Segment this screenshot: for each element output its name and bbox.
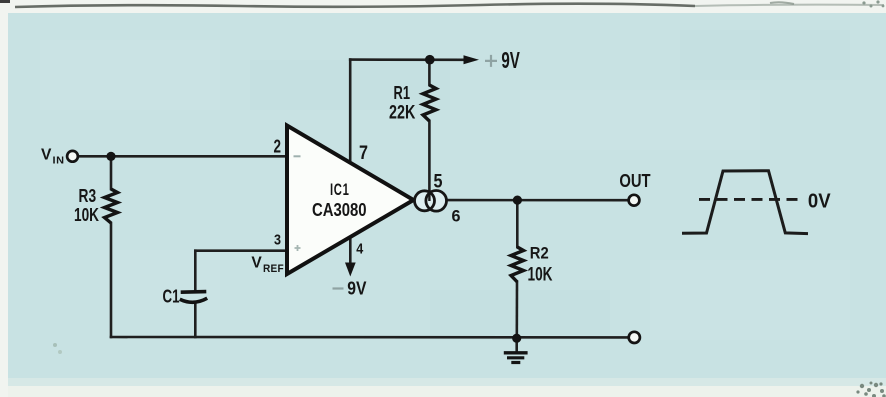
svg-text:V: V xyxy=(251,255,262,272)
wire R3 branch vertical xyxy=(110,156,113,189)
svg-text:IN: IN xyxy=(53,155,65,167)
wire output xyxy=(447,199,629,202)
svg-text:10K: 10K xyxy=(74,204,99,225)
junction VIN/R3 xyxy=(106,152,115,161)
wire input (VIN to pin 2) xyxy=(78,155,287,158)
wire R3 bottom to rail xyxy=(110,223,113,337)
svg-text:V: V xyxy=(41,147,52,164)
svg-text:REF: REF xyxy=(263,263,284,275)
svg-text:9V: 9V xyxy=(501,47,520,73)
svg-text:2: 2 xyxy=(274,136,282,156)
wire R2 top xyxy=(516,200,519,247)
opamp plus sign (pin 3) xyxy=(295,245,301,251)
junction ground xyxy=(512,334,521,343)
svg-text:9V: 9V xyxy=(347,279,366,299)
opamp minus sign (pin 2) xyxy=(294,155,301,157)
svg-text:R3: R3 xyxy=(79,185,97,206)
junction OUT/R2 xyxy=(513,196,522,205)
op-amp IC1 triangle xyxy=(287,126,414,275)
svg-text:CA3080: CA3080 xyxy=(312,199,367,220)
label -9V xyxy=(333,279,367,299)
svg-text:R2: R2 xyxy=(530,244,549,262)
OTA output circles xyxy=(415,190,447,211)
terminal OUT xyxy=(629,195,640,206)
wire R1 top xyxy=(428,60,431,85)
corner speckles xyxy=(0,0,10,3)
label VIN xyxy=(41,147,65,167)
wire C1 top branch xyxy=(194,251,197,291)
capacitor C1 xyxy=(180,292,207,303)
svg-text:C1: C1 xyxy=(163,287,180,307)
waveform trapezoid xyxy=(682,171,808,234)
svg-text:IC1: IC1 xyxy=(330,180,350,199)
svg-text:0V: 0V xyxy=(808,191,831,213)
label VREF xyxy=(251,255,284,276)
arrow pin 4 (-9V) xyxy=(345,263,356,277)
waveform 0V dashed line xyxy=(699,198,802,201)
svg-text:5: 5 xyxy=(434,171,443,192)
svg-text:OUT: OUT xyxy=(619,171,651,192)
svg-text:7: 7 xyxy=(359,143,368,164)
wire bottom rail xyxy=(111,336,629,339)
wire C1 bottom branch xyxy=(194,304,197,338)
arrow +9V xyxy=(464,55,480,64)
svg-text:R1: R1 xyxy=(394,83,411,103)
svg-text:6: 6 xyxy=(452,208,461,226)
wire R1 to pin 5 xyxy=(428,121,431,200)
ground xyxy=(504,353,528,363)
resistor R3 xyxy=(105,189,118,223)
terminal bottom xyxy=(629,332,640,343)
wire pin 4 xyxy=(349,238,352,265)
wire pin 7 vertical xyxy=(349,60,352,163)
resistor R2 xyxy=(511,247,524,282)
wire pin 3 VREF xyxy=(195,249,287,252)
junction +9V/R1 xyxy=(425,55,435,65)
svg-text:4: 4 xyxy=(356,240,364,257)
torn paper edge line xyxy=(15,4,695,7)
resistor R1 xyxy=(423,85,436,121)
svg-text:22K: 22K xyxy=(389,102,416,123)
wire +9V rail xyxy=(350,58,465,61)
svg-text:10K: 10K xyxy=(528,264,553,285)
svg-text:3: 3 xyxy=(274,233,281,249)
wire R2 bottom xyxy=(515,282,518,338)
wire ground stem xyxy=(515,338,518,352)
label +9V xyxy=(485,47,520,73)
subtle scan mottling xyxy=(40,40,850,340)
terminal VIN xyxy=(67,151,78,162)
